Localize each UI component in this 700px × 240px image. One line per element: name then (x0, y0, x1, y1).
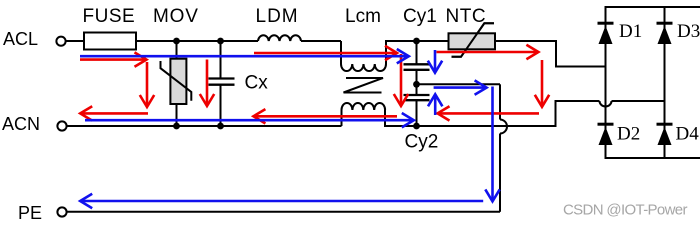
svg-text:D2: D2 (617, 124, 640, 145)
svg-text:Cy1: Cy1 (403, 6, 437, 27)
svg-text:PE: PE (18, 203, 42, 223)
svg-text:FUSE: FUSE (83, 6, 136, 27)
svg-text:Lcm: Lcm (345, 6, 381, 27)
svg-text:ACL: ACL (3, 29, 38, 49)
svg-text:Cx: Cx (245, 73, 269, 94)
svg-text:MOV: MOV (153, 6, 199, 27)
svg-text:D4: D4 (676, 124, 700, 145)
svg-text:LDM: LDM (256, 6, 299, 27)
svg-text:Cy2: Cy2 (405, 132, 439, 153)
svg-text:NTC: NTC (446, 6, 487, 27)
svg-text:ACN: ACN (2, 114, 40, 134)
svg-text:D3: D3 (677, 21, 700, 42)
svg-text:D1: D1 (619, 21, 642, 42)
svg-text:CSDN @IOT-Power: CSDN @IOT-Power (563, 202, 687, 219)
